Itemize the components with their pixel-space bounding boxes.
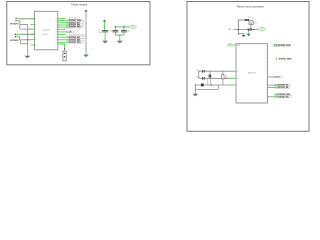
svg-text:10u: 10u <box>99 32 102 34</box>
svg-text:MOTEUR: MOTEUR <box>42 30 50 32</box>
svg-text:X1: X1 <box>237 71 239 73</box>
svg-text:C1: C1 <box>99 30 101 32</box>
svg-text:MOTEUR_AR: MOTEUR_AR <box>278 86 289 89</box>
svg-text:7805: 7805 <box>254 23 257 25</box>
svg-text:RST: RST <box>237 45 240 47</box>
svg-text:MOTEUR1: MOTEUR1 <box>10 24 18 26</box>
svg-text:+5V: +5V <box>261 29 264 31</box>
svg-text:C3: C3 <box>127 30 129 32</box>
svg-text:ATMEGA8: ATMEGA8 <box>248 72 256 75</box>
svg-text:MOTEUR_SENS: MOTEUR_SENS <box>279 59 293 61</box>
svg-text:MOTEUR_PW3: MOTEUR_PW3 <box>69 42 81 44</box>
svg-text:RST: RST <box>229 45 232 47</box>
svg-text:22p: 22p <box>197 70 200 72</box>
svg-text:22p: 22p <box>197 77 200 79</box>
svg-text:MOTEUR_PWM: MOTEUR_PWM <box>278 45 291 47</box>
svg-text:C2: C2 <box>110 30 112 32</box>
svg-text:10k: 10k <box>225 78 228 80</box>
svg-text:MOTEUR2: MOTEUR2 <box>10 40 18 42</box>
svg-text:VITESSE_DIR: VITESSE_DIR <box>278 96 290 98</box>
svg-text:+5V: +5V <box>132 27 135 29</box>
svg-text:MOTEUR_AV2: MOTEUR_AV2 <box>69 36 80 39</box>
svg-text:MOTEUR_PW2: MOTEUR_PW2 <box>69 27 81 29</box>
svg-text:X2: X2 <box>237 78 239 80</box>
svg-text:D1: D1 <box>248 17 250 19</box>
svg-text:R1: R1 <box>225 75 227 77</box>
svg-text:Partie moteur: Partie moteur <box>71 3 87 7</box>
svg-text:L293D: L293D <box>43 34 49 36</box>
svg-text:Partie micro controleur: Partie micro controleur <box>237 4 264 8</box>
